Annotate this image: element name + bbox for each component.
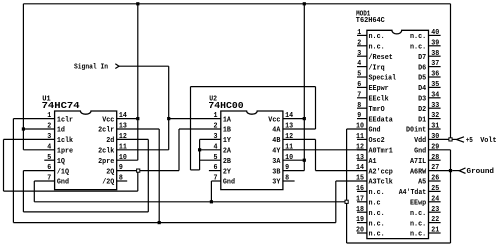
node junction U1 pin 14 Vcc	[136, 117, 139, 120]
svg-text:Special: Special	[369, 75, 397, 83]
wire +5V drop to U2 Vcc	[303, 4, 305, 171]
wire net /1Q-2d bottom run	[23, 211, 148, 213]
wire 1Y net jog	[191, 169, 200, 171]
wire U2 1B column	[178, 129, 180, 171]
wire net 1clr-2clr bottom run	[13, 222, 335, 224]
svg-text:D6: D6	[418, 64, 426, 72]
wire Signal In horizontal	[119, 65, 169, 67]
svg-text:9: 9	[285, 164, 289, 172]
svg-text:EEpwr: EEpwr	[369, 85, 389, 93]
svg-text:5: 5	[214, 154, 218, 162]
svg-text:n.c.: n.c.	[369, 33, 385, 41]
node junction ground at MOD1 pin 27	[449, 169, 452, 172]
svg-text:29: 29	[431, 143, 439, 151]
svg-text:D1: D1	[418, 116, 427, 124]
svg-text:6: 6	[47, 164, 51, 172]
U2 pin 11 (4Y) stub	[283, 149, 367, 151]
svg-text:16: 16	[356, 185, 364, 193]
node junction U2 pin 14 Vcc	[303, 117, 306, 120]
svg-text:3A: 3A	[272, 158, 281, 166]
svg-text:13: 13	[356, 154, 364, 162]
svg-text:+5: +5	[466, 137, 473, 145]
MOD1 pin 19 (n.c.) stub	[357, 222, 367, 224]
MOD1 pin 10 (Gnd) stub	[347, 128, 367, 130]
wire ground column at MOD1	[346, 129, 348, 243]
MOD1 pin 28 (A7IL) stub	[429, 159, 441, 161]
svg-text:22: 22	[431, 216, 439, 224]
svg-text:26: 26	[431, 175, 439, 183]
svg-text:n.c.: n.c.	[410, 231, 426, 239]
MOD1 pin 1 (n.c.) stub	[357, 34, 367, 36]
svg-text:A4'Tdat: A4'Tdat	[399, 189, 427, 197]
U2 pin 8 (3Y) stub	[283, 180, 295, 182]
svg-text:3: 3	[214, 133, 218, 141]
MOD1 pin 7 (EEclk) stub	[357, 97, 367, 99]
svg-text:9: 9	[357, 112, 361, 120]
svg-text:3B: 3B	[272, 168, 281, 176]
node junction 2clr on clear net	[158, 221, 161, 224]
svg-text:28: 28	[431, 154, 439, 162]
svg-text:8: 8	[285, 175, 289, 183]
svg-text:4Y: 4Y	[272, 148, 281, 156]
U1 pin 1 (1clr) stub	[13, 118, 54, 120]
wire Signal In drop column	[168, 66, 170, 150]
svg-text:D0int: D0int	[406, 127, 426, 135]
svg-text:3Y: 3Y	[272, 179, 281, 187]
svg-text:3: 3	[47, 133, 51, 141]
svg-text:Gnd: Gnd	[57, 179, 69, 187]
svg-text:2d: 2d	[106, 137, 114, 145]
svg-text:D4: D4	[418, 85, 427, 93]
svg-text:n.c.: n.c.	[410, 33, 426, 41]
wire U1 Gnd column	[33, 181, 35, 202]
svg-text:36: 36	[431, 71, 439, 79]
svg-text:40: 40	[431, 29, 439, 37]
svg-text:2: 2	[357, 39, 361, 47]
svg-text:Gnd: Gnd	[223, 179, 235, 187]
U1 pin 9 (2Q) stub	[117, 170, 179, 172]
U2 pin 3 (1Y) stub	[200, 138, 221, 140]
MOD1 pin 9 (EEdata) stub	[357, 118, 367, 120]
U2 pin 2 (1B) stub	[179, 128, 221, 130]
svg-text:11: 11	[285, 143, 294, 151]
MOD1 pin 38 (D7) stub	[429, 55, 441, 57]
node junction ground at U2 Gnd drop	[210, 200, 213, 203]
svg-text:24: 24	[431, 195, 440, 203]
svg-text:n.c.: n.c.	[369, 44, 385, 52]
U2 pin 9 (3B) stub	[283, 170, 304, 172]
svg-text:34: 34	[431, 91, 440, 99]
U1 pin 7 (Gnd) stub	[34, 180, 54, 182]
MOD1 pin 32 (D1) stub	[429, 118, 441, 120]
svg-text:4B: 4B	[272, 137, 281, 145]
svg-text:2B: 2B	[223, 158, 232, 166]
MOD1 pin 16 (n.c.) stub	[357, 190, 367, 192]
U1 pin 14 (Vcc) stub	[117, 118, 138, 120]
node junction +5V rail / U2 Vcc drop	[303, 2, 306, 5]
U1 pin 3 (1clk) stub	[4, 138, 55, 140]
svg-text:23: 23	[431, 206, 439, 214]
svg-text:A2'ccp: A2'ccp	[369, 168, 393, 176]
U1 pin 2 (1d) stub	[23, 128, 54, 130]
svg-text:14: 14	[356, 164, 365, 172]
U2 pin 5 (2B) stub	[200, 159, 221, 161]
svg-text:10: 10	[285, 154, 293, 162]
svg-text:6: 6	[357, 81, 361, 89]
svg-text:4: 4	[47, 143, 52, 151]
wire ground bottom run	[34, 201, 346, 203]
MOD1 pin 21 (n.c.) stub	[429, 232, 441, 234]
U1 pin 10 (2pre) stub	[117, 159, 138, 161]
svg-text:Gnd: Gnd	[414, 148, 426, 156]
MOD1 pin 11 (Osc2) stub	[357, 138, 367, 140]
svg-text:13: 13	[119, 123, 127, 131]
MOD1 pin 15 (A3Tclk) stub	[336, 180, 367, 182]
svg-text:5: 5	[357, 71, 361, 79]
MOD1 pin 40 (n.c.) stub	[429, 34, 441, 36]
svg-text:Vdd: Vdd	[414, 137, 426, 145]
MOD1 pin 23 (n.c.) stub	[429, 211, 441, 213]
U1 pin 5 (1Q) stub	[44, 159, 54, 161]
MOD1 pin 4 (/Irq) stub	[357, 66, 367, 68]
svg-text:8: 8	[119, 175, 123, 183]
MOD1 pin 33 (D2) stub	[429, 107, 441, 109]
MOD1 pin 34 (D3) stub	[429, 97, 441, 99]
MOD1 pin 20 (n.c.) stub	[357, 232, 367, 234]
svg-text:2Q: 2Q	[106, 168, 115, 176]
U2 pin 13 (4A) stub	[283, 128, 316, 130]
svg-text:Signal In: Signal In	[74, 64, 108, 72]
svg-text:1B: 1B	[223, 127, 232, 135]
wire U1 2Q drop column	[137, 171, 139, 192]
svg-text:11: 11	[356, 133, 365, 141]
MOD1 pin 14 (A2'ccp) stub	[316, 170, 367, 172]
wire U1 2clr column	[158, 129, 160, 223]
U1 pin 11 (2clk) stub	[117, 149, 169, 151]
svg-text:Volt: Volt	[480, 137, 497, 145]
svg-text:A3Tclk: A3Tclk	[369, 179, 394, 187]
svg-text:10: 10	[119, 154, 127, 162]
svg-text:2Y: 2Y	[223, 168, 232, 176]
node junction U2 pin 4 2A	[198, 148, 201, 151]
wire clear net riser to A3Tclk	[335, 181, 337, 223]
U2 pin 10 (3A) stub	[283, 159, 304, 161]
U2 pin 14 (Vcc) stub	[283, 118, 304, 120]
svg-text:4: 4	[357, 60, 362, 68]
svg-text:9: 9	[119, 164, 123, 172]
wire 1Y net drop to 4A	[315, 87, 317, 129]
svg-text:Osc2: Osc2	[369, 137, 385, 145]
U1 pin 8 (/2Q) stub	[117, 180, 128, 182]
module MOD1 T62H64C body	[367, 30, 429, 238]
U2 pin 4 (2A) stub	[200, 149, 221, 151]
svg-text:7: 7	[214, 175, 218, 183]
MOD1 pin 5 (Special) stub	[357, 76, 367, 78]
svg-text:2: 2	[47, 123, 51, 131]
MOD1 pin 39 (n.c.) stub	[429, 45, 441, 47]
connector square ground node	[345, 200, 348, 203]
svg-text:20: 20	[356, 227, 364, 235]
svg-text:1pre: 1pre	[57, 148, 73, 156]
MOD1 pin 31 (D0int) stub	[429, 128, 441, 130]
connector ground arrow	[459, 168, 465, 174]
svg-text:EEdata: EEdata	[369, 116, 394, 124]
MOD1 pin 12 (A0Tmr1) stub	[357, 149, 367, 151]
svg-text:2clk: 2clk	[98, 148, 115, 156]
U1 pin 6 (/1Q) stub	[23, 170, 54, 172]
MOD1 pin 30 (Vdd) stub	[429, 138, 449, 140]
MOD1 pin 2 (n.c.) stub	[357, 45, 367, 47]
svg-text:/Irq: /Irq	[369, 64, 385, 72]
svg-text:15: 15	[356, 175, 364, 183]
svg-text:n.c.: n.c.	[369, 220, 385, 228]
svg-text:Ground: Ground	[467, 168, 495, 176]
svg-text:4: 4	[214, 143, 219, 151]
svg-text:A5: A5	[418, 179, 426, 187]
MOD1 pin 25 (A4'Tdat) stub	[429, 190, 441, 192]
svg-text:D3: D3	[418, 96, 426, 104]
svg-text:5: 5	[47, 154, 51, 162]
svg-text:14: 14	[285, 112, 294, 120]
wire +5V connector lead	[452, 138, 456, 140]
svg-text:1clr: 1clr	[57, 116, 73, 124]
wire ground connector lead	[452, 170, 459, 172]
svg-text:/2Q: /2Q	[102, 179, 115, 187]
svg-text:1clk: 1clk	[57, 137, 74, 145]
svg-text:6: 6	[214, 164, 218, 172]
wire ground bottom right run	[347, 242, 451, 244]
U1 pin 13 (2clr) stub	[117, 128, 160, 130]
MOD1 pin 36 (D5) stub	[429, 76, 441, 78]
svg-text:1: 1	[357, 29, 362, 37]
MOD1 pin 17 (n.c) stub	[357, 201, 367, 203]
node junction +5V rail / U1 Vcc drop	[136, 2, 139, 5]
MOD1 pin 13 (A1) stub	[357, 159, 367, 161]
svg-text:A0Tmr1: A0Tmr1	[369, 148, 394, 156]
svg-text:EEwp: EEwp	[410, 200, 426, 208]
wire +5V right drop to Vdd	[450, 4, 452, 140]
svg-text:n.c: n.c	[369, 200, 381, 208]
svg-text:1: 1	[47, 112, 52, 120]
svg-text:Vcc: Vcc	[268, 116, 280, 124]
MOD1 pin 26 (A5) stub	[429, 180, 441, 182]
U2 pin 7 (Gnd) stub	[211, 180, 220, 182]
svg-text:Gnd: Gnd	[369, 127, 381, 135]
wire 4B to A2ccp column	[315, 139, 317, 170]
svg-text:2A: 2A	[223, 148, 232, 156]
svg-text:n.c.: n.c.	[410, 210, 426, 218]
U1 pin 4 (1pre) stub	[23, 149, 54, 151]
svg-text:74HC00: 74HC00	[208, 100, 243, 111]
svg-text:A1: A1	[369, 158, 378, 166]
svg-text:1d: 1d	[57, 127, 65, 135]
svg-text:7: 7	[357, 91, 361, 99]
wire +5V top rail	[23, 3, 450, 5]
MOD1 pin 8 (TmrO) stub	[357, 107, 367, 109]
svg-text:39: 39	[431, 39, 439, 47]
MOD1 pin 37 (D6) stub	[429, 66, 441, 68]
MOD1 pin 24 (EEwp) stub	[429, 201, 441, 203]
U2 pin 12 (4B) stub	[283, 138, 316, 140]
svg-text:30: 30	[431, 133, 439, 141]
wire U1 /1Q column	[22, 171, 24, 212]
wire U2 Gnd drop	[210, 181, 212, 202]
svg-text:8: 8	[357, 102, 361, 110]
MOD1 pin 3 (/Reset) stub	[357, 55, 367, 57]
wire 1Y net top run	[191, 86, 316, 88]
svg-text:11: 11	[119, 143, 128, 151]
svg-text:A7IL: A7IL	[410, 158, 426, 166]
wire +5V left drop to U1	[22, 4, 24, 150]
svg-text:2: 2	[214, 123, 218, 131]
svg-text:12: 12	[356, 143, 364, 151]
svg-text:n.c.: n.c.	[410, 220, 426, 228]
wire 1Y net riser	[190, 87, 192, 170]
svg-text:3: 3	[357, 50, 361, 58]
svg-text:32: 32	[431, 112, 439, 120]
wire U1 1clr column	[12, 119, 14, 223]
svg-text:10: 10	[356, 123, 364, 131]
svg-text:D7: D7	[418, 54, 426, 62]
svg-text:17: 17	[356, 195, 364, 203]
svg-text:19: 19	[356, 216, 364, 224]
connector square 2Q node	[137, 169, 140, 172]
connector square +5V node	[449, 138, 452, 141]
connector +5V arrow	[456, 137, 464, 142]
svg-text:33: 33	[431, 102, 439, 110]
svg-text:/1Q: /1Q	[57, 168, 70, 176]
NAND U2 74HC00 body	[221, 111, 283, 190]
svg-text:13: 13	[285, 123, 293, 131]
connector Signal In arrow	[115, 64, 119, 69]
svg-text:25: 25	[431, 185, 439, 193]
svg-text:1Y: 1Y	[223, 137, 232, 145]
svg-text:2pre: 2pre	[98, 158, 114, 166]
svg-text:EEclk: EEclk	[369, 96, 390, 104]
svg-text:38: 38	[431, 50, 439, 58]
svg-text:37: 37	[431, 60, 439, 68]
svg-text:27: 27	[431, 164, 439, 172]
U1 pin 12 (2d) stub	[117, 138, 149, 140]
svg-text:18: 18	[356, 206, 364, 214]
MOD1 pin 27 (A6RW) stub	[429, 170, 451, 172]
MOD1 pin 18 (n.c.) stub	[357, 211, 367, 213]
svg-text:TmrO: TmrO	[369, 106, 386, 114]
wire ground right column	[450, 150, 452, 243]
wire net 1clk-2Q bottom run	[4, 190, 138, 192]
svg-text:D2: D2	[418, 106, 426, 114]
wire U2 bracket 1Y-2A-2B	[199, 139, 201, 170]
svg-text:/Reset: /Reset	[369, 54, 393, 62]
svg-text:n.c.: n.c.	[369, 210, 385, 218]
svg-text:7: 7	[47, 175, 51, 183]
MOD1 pin 29 (Gnd) stub	[429, 149, 451, 151]
svg-text:Vcc: Vcc	[102, 116, 114, 124]
MOD1 pin 6 (EEpwr) stub	[357, 86, 367, 88]
svg-text:n.c.: n.c.	[410, 44, 426, 52]
svg-text:14: 14	[119, 112, 128, 120]
wire +5V drop to U1 Vcc	[137, 4, 139, 160]
svg-text:n.c.: n.c.	[369, 189, 385, 197]
svg-text:n.c.: n.c.	[369, 231, 385, 239]
svg-text:A6RW: A6RW	[410, 168, 427, 176]
svg-text:74HC74: 74HC74	[42, 100, 81, 111]
svg-text:T62H64C: T62H64C	[356, 17, 386, 25]
svg-text:12: 12	[285, 133, 293, 141]
wire U1 2d column	[147, 139, 149, 212]
node junction +5V at U1 pin 2	[22, 127, 25, 130]
node junction U2 pin 10 3A	[303, 159, 306, 162]
svg-text:4A: 4A	[272, 127, 281, 135]
MOD1 pin 35 (D4) stub	[429, 86, 441, 88]
node junction Signal In at U2 1A	[167, 117, 170, 120]
svg-text:1Q: 1Q	[57, 158, 66, 166]
flip-flop U1 74HC74 body	[55, 111, 117, 190]
svg-text:31: 31	[431, 123, 440, 131]
svg-text:21: 21	[431, 227, 440, 235]
U2 pin 1 (1A) stub	[169, 118, 221, 120]
U2 pin 6 (2Y) stub	[209, 170, 221, 172]
svg-text:1: 1	[214, 112, 219, 120]
wire U1 1clk column	[3, 139, 5, 191]
svg-text:35: 35	[431, 81, 439, 89]
svg-text:D5: D5	[418, 75, 426, 83]
svg-text:2clr: 2clr	[98, 127, 114, 135]
MOD1 pin 22 (n.c.) stub	[429, 222, 441, 224]
svg-text:12: 12	[119, 133, 127, 141]
svg-text:1A: 1A	[223, 116, 232, 124]
